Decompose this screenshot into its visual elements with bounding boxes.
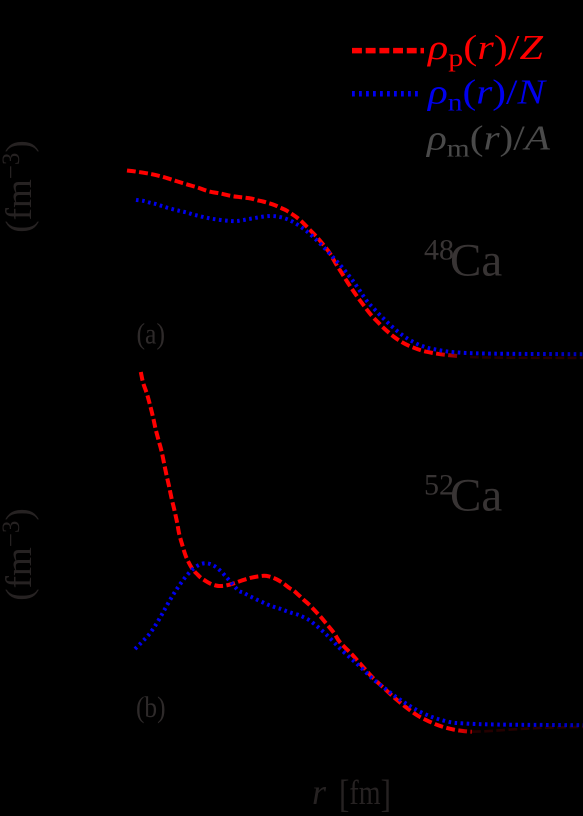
svg-text:[fm]: [fm] xyxy=(339,773,391,816)
svg-text:(b): (b) xyxy=(136,691,166,724)
svg-text:ρn(r)/N: ρn(r)/N xyxy=(427,73,547,117)
svg-text:(a): (a) xyxy=(137,318,166,351)
svg-text:r: r xyxy=(312,772,327,812)
svg-text:ρm(r)/A: ρm(r)/A xyxy=(426,119,551,163)
svg-text:ρp(r)/Z: ρp(r)/Z xyxy=(427,28,544,72)
